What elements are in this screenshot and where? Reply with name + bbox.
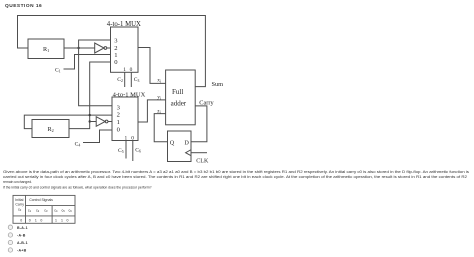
wire MUX2 select stub C6 — [132, 141, 134, 162]
svg-text:R1: R1 — [43, 46, 49, 53]
wire MUX1 select stub C2 — [124, 72, 126, 87]
label C3 — [134, 77, 140, 83]
svg-text:Full: Full — [172, 88, 183, 96]
register R2 — [32, 120, 69, 138]
svg-text:D: D — [184, 139, 189, 146]
wire R1 output down to MUX2 input 3 — [79, 48, 112, 106]
svg-text:A-B-1: A-B-1 — [17, 241, 28, 245]
wire MUX2 select stub C5 — [125, 141, 127, 159]
svg-text:0: 0 — [117, 126, 121, 133]
svg-text:Carry: Carry — [199, 99, 214, 106]
svg-text:C3: C3 — [134, 77, 140, 83]
mux U1 4-to-1 MUX — [107, 21, 141, 73]
svg-text:c2: c2 — [36, 209, 40, 214]
svg-text:-A+B: -A+B — [17, 248, 27, 252]
node junction on R1 output — [77, 47, 79, 49]
svg-text:0: 0 — [114, 59, 118, 66]
wire flip-flop Q to full adder z input — [154, 114, 167, 142]
label CLK — [196, 159, 209, 165]
label zi — [157, 109, 160, 115]
svg-text:1: 1 — [123, 67, 126, 73]
wire C1 to MUX1 input 1 — [64, 55, 111, 70]
radio option A+B — [8, 248, 26, 253]
svg-text:0: 0 — [29, 218, 31, 222]
wire MUX1 output to full adder x input — [138, 48, 166, 84]
svg-text:Carry: Carry — [15, 203, 24, 207]
radio option A-B — [8, 233, 26, 238]
svg-text:1: 1 — [117, 119, 120, 126]
svg-text:c6: c6 — [69, 209, 73, 214]
node junction b to MUX2 input 2 — [89, 114, 91, 116]
wire MUX2 output to full adder y input — [138, 100, 166, 122]
svg-text:4-to-1 MUX: 4-to-1 MUX — [107, 21, 141, 28]
svg-text:1: 1 — [35, 218, 37, 222]
label Sum — [212, 81, 224, 88]
svg-text:c5: c5 — [62, 209, 66, 214]
svg-text:R2: R2 — [48, 126, 54, 133]
flip-flop U4 D — [168, 131, 192, 162]
svg-text:0: 0 — [40, 218, 42, 222]
svg-text:QUESTION 16: QUESTION 16 — [5, 3, 42, 9]
label C6 — [135, 148, 141, 154]
svg-text:1: 1 — [55, 218, 57, 222]
svg-text:1: 1 — [114, 52, 117, 59]
clock edge triangle — [186, 150, 191, 156]
wire CLK — [191, 152, 207, 154]
mux U2 4-to-1 MUX — [112, 91, 146, 141]
label xi — [157, 78, 161, 84]
svg-text:Initial: Initial — [15, 198, 23, 202]
wire R1 output to inverter — [64, 47, 95, 49]
question paragraph — [3, 170, 469, 189]
svg-text:B-A-1: B-A-1 — [17, 226, 28, 230]
label yi — [157, 95, 161, 101]
svg-text:0: 0 — [130, 67, 133, 73]
svg-text:C2: C2 — [117, 77, 123, 83]
svg-text:c3: c3 — [44, 209, 48, 214]
svg-text:c4: c4 — [54, 209, 58, 214]
svg-text:2: 2 — [117, 112, 120, 119]
svg-text:C4: C4 — [75, 141, 81, 147]
wire R2 feedback and MUX2 input 2 — [24, 115, 112, 129]
svg-text:remain unchanged.: remain unchanged. — [3, 180, 32, 184]
svg-text:adder: adder — [171, 100, 187, 108]
svg-text:Given above is the data-path o: Given above is the data-path of an arith… — [3, 170, 469, 174]
svg-text:0: 0 — [20, 218, 22, 222]
radio option B-A-1 — [8, 225, 28, 230]
full adder U3 — [166, 70, 196, 125]
inverter for R1 (a complement) — [95, 43, 111, 53]
svg-text:3: 3 — [117, 104, 121, 111]
label C5 — [118, 148, 124, 154]
svg-text:c1: c1 — [28, 209, 32, 214]
label C2 — [117, 77, 123, 83]
svg-text:2: 2 — [114, 45, 117, 52]
svg-text:If the initial carry c0 and co: If the initial carry c0 and control sign… — [3, 185, 152, 189]
inverter for R2 (b complement) — [90, 117, 112, 127]
wire R2 output up to MUX1 input 0 — [69, 62, 111, 129]
svg-text:C5: C5 — [118, 148, 124, 154]
svg-text:CLK: CLK — [196, 159, 209, 165]
svg-text:C1: C1 — [55, 68, 61, 74]
radio option A-B-1 — [8, 240, 28, 245]
control signal table — [13, 195, 75, 223]
label C1 — [55, 68, 61, 74]
svg-text:-A-B: -A-B — [17, 233, 26, 237]
svg-text:carried out serially in four c: carried out serially in four clock cycle… — [3, 175, 467, 179]
svg-text:xi: xi — [157, 78, 161, 84]
label Carry — [199, 99, 214, 106]
svg-text:Q: Q — [170, 139, 175, 146]
svg-text:C6: C6 — [135, 148, 141, 154]
register R1 — [28, 39, 64, 59]
svg-text:Sum: Sum — [212, 81, 224, 88]
wire C4 to MUX2 input 0 — [83, 130, 112, 143]
svg-text:Control Signals: Control Signals — [29, 198, 53, 202]
node junction b to inverter — [89, 120, 91, 122]
svg-text:3: 3 — [114, 37, 118, 44]
label C4 — [75, 141, 81, 147]
wire R1 output to MUX1 input 3 — [79, 40, 111, 48]
svg-text:1: 1 — [61, 218, 63, 222]
svg-text:0: 0 — [67, 218, 69, 222]
svg-text:4-to-1 MUX: 4-to-1 MUX — [113, 91, 146, 98]
wire MUX1 select stub C3 — [130, 72, 132, 87]
wire sum feedback from full adder to R1 input — [18, 16, 206, 87]
svg-text:c0: c0 — [18, 208, 22, 213]
wire carry output to D flip-flop — [191, 106, 207, 142]
question header label — [5, 3, 42, 9]
